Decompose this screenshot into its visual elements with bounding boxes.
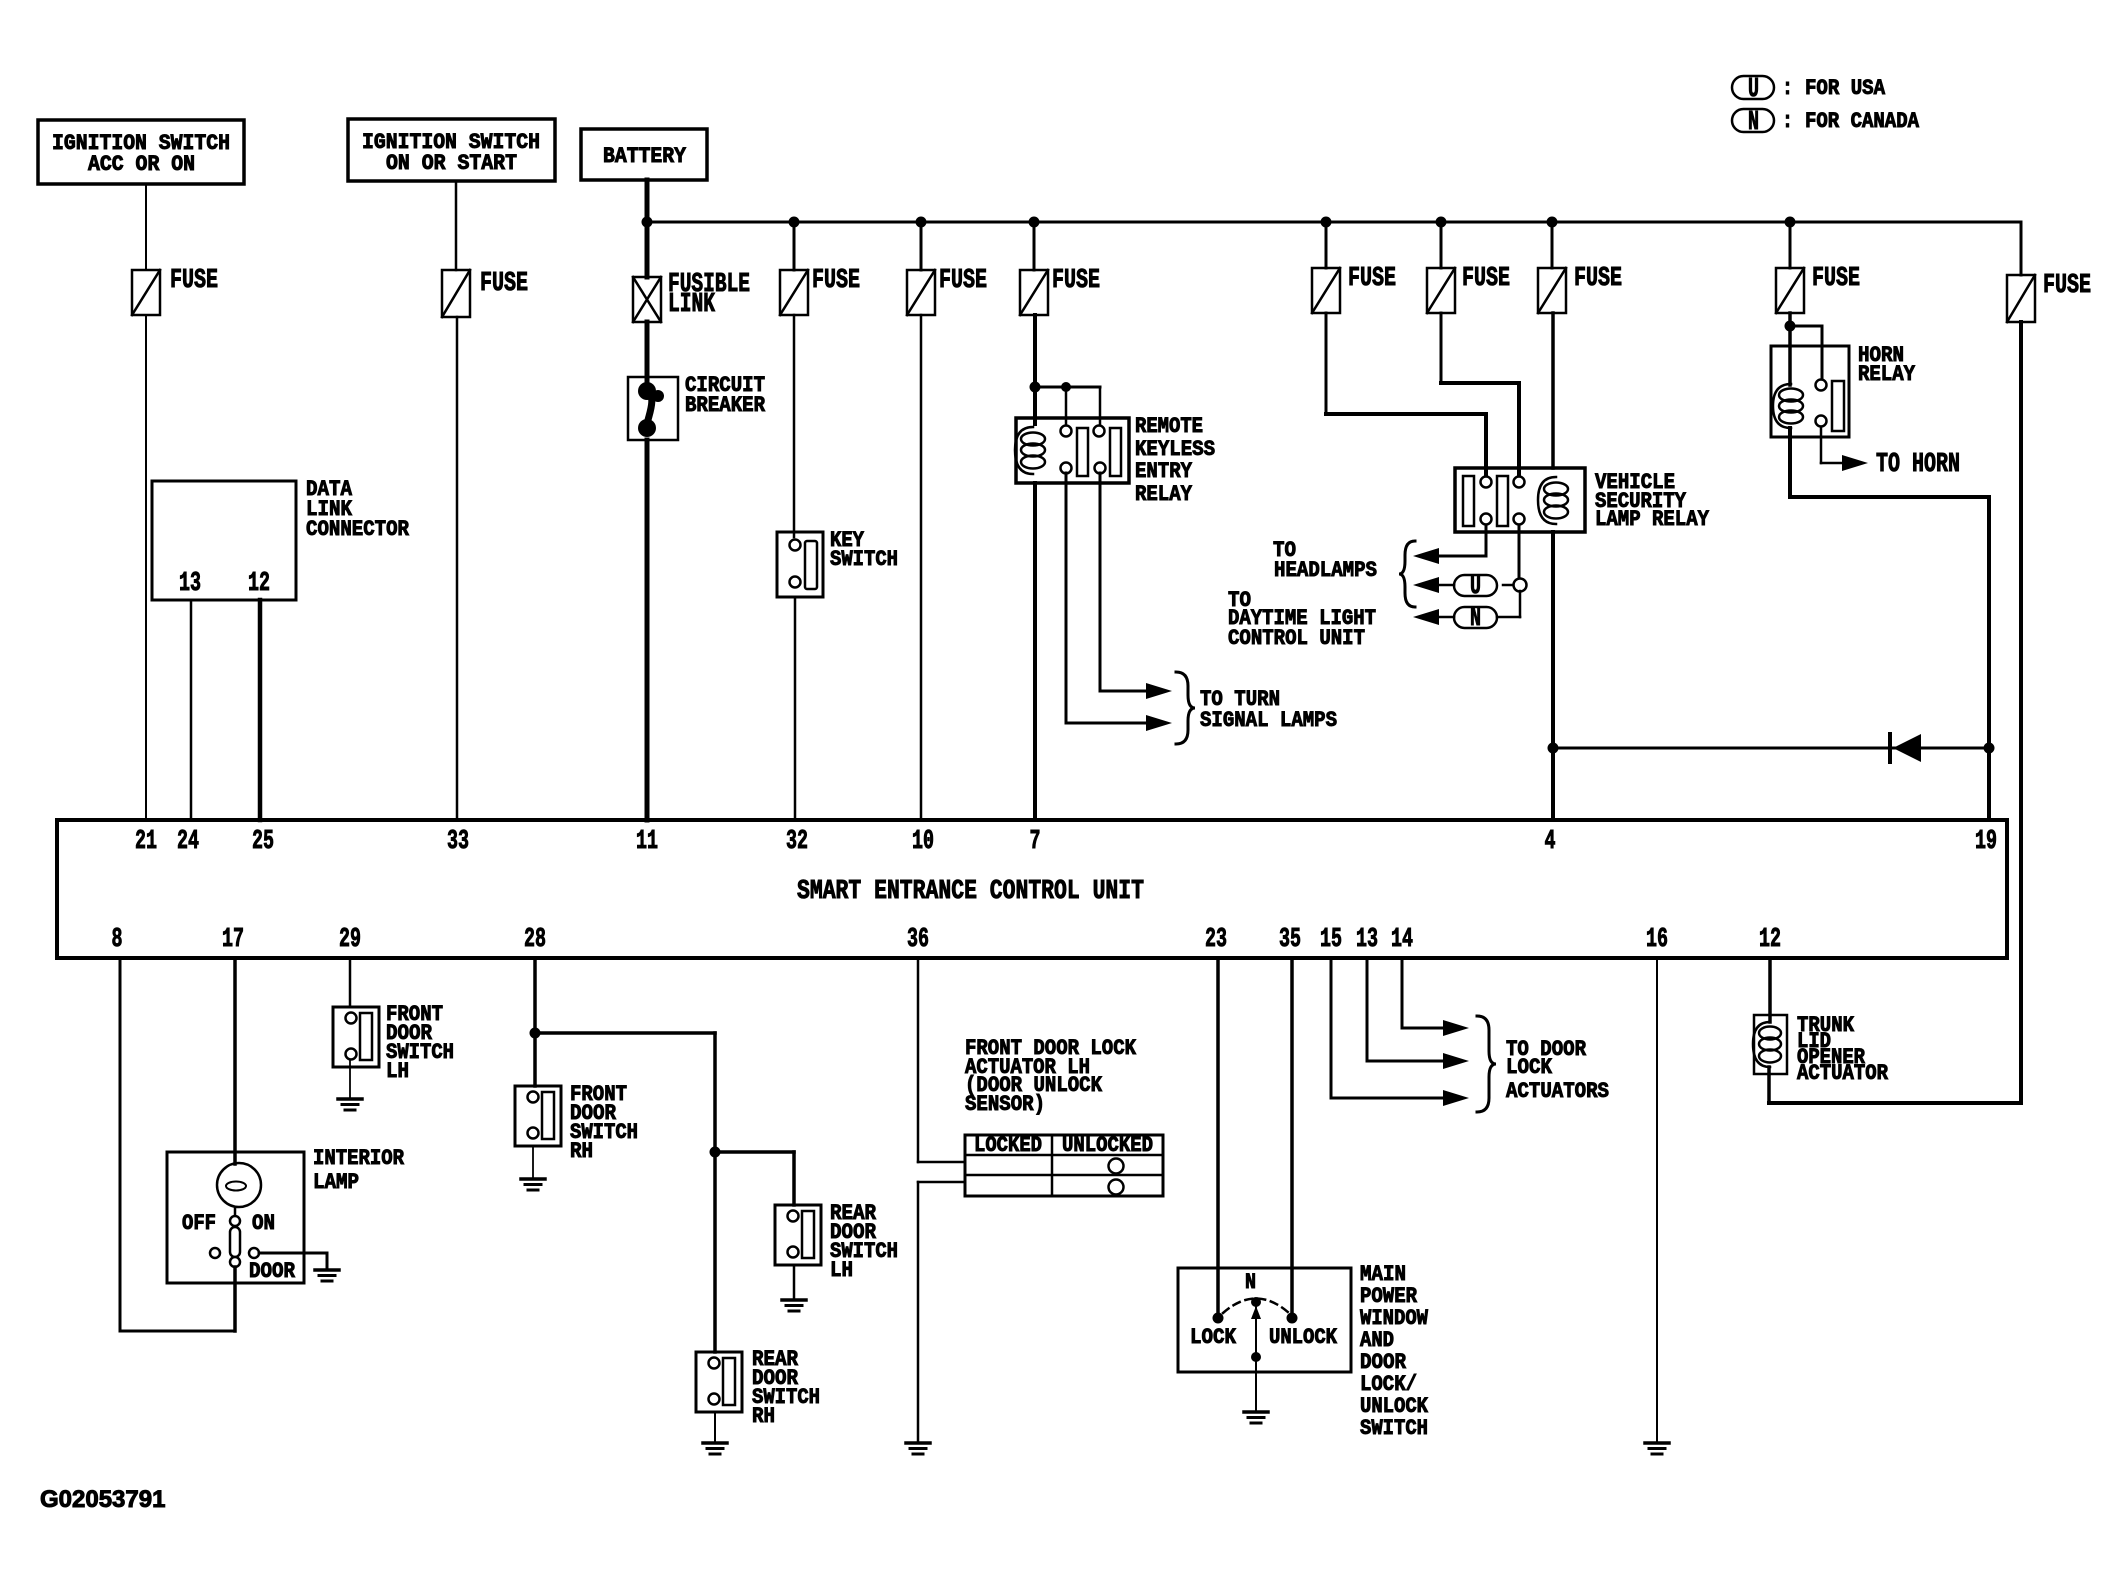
wire pin 28 to front door switch RH (533, 958, 537, 1086)
fuse F4 (907, 266, 987, 315)
wire bus to fuse F9 (1789, 222, 1792, 268)
svg-text:FUSE: FUSE (480, 269, 528, 299)
front door switch RH (515, 1086, 561, 1146)
legend FOR USA (1782, 76, 1886, 101)
brace turn signal group (1176, 672, 1195, 744)
svg-text:LOCK: LOCK (1190, 1325, 1237, 1350)
svg-text:FUSE: FUSE (812, 266, 860, 296)
svg-text:10: 10 (912, 827, 934, 857)
svg-text:UNLOCKED: UNLOCKED (1062, 1133, 1153, 1158)
ground pin 16 (1645, 1441, 1669, 1445)
wire pin 16 to ground (1656, 958, 1658, 1441)
svg-text:UNLOCK: UNLOCK (1269, 1325, 1338, 1350)
svg-text:ACC OR ON: ACC OR ON (88, 152, 195, 177)
svg-text:ACTUATOR: ACTUATOR (1797, 1061, 1889, 1086)
label REAR DOOR SWITCH LH (830, 1201, 898, 1283)
svg-text:RH: RH (570, 1139, 593, 1164)
wire rear door switch LH to ground (793, 1266, 796, 1298)
wire pin 29 to front door switch LH (349, 958, 352, 1007)
wire relay contact to turn signal (upper) (1099, 473, 1102, 691)
fuse F3 (780, 266, 860, 315)
svg-text:LH: LH (830, 1258, 853, 1283)
label TO TURN SIGNAL LAMPS (1200, 687, 1337, 733)
key switch (777, 528, 898, 597)
fuse F5 (1020, 266, 1100, 315)
wire lamp relay mid contact to connector circle (1518, 525, 1521, 579)
wire pin 35 to unlock contact (1290, 958, 1294, 1312)
wire rear door switch RH to ground (714, 1412, 716, 1441)
wire DLC pin 13 to pin 24 (190, 600, 193, 820)
fuse F2 (ON or START) (442, 269, 528, 317)
node diode row right (1984, 743, 1995, 754)
svg-text:CONTROL UNIT: CONTROL UNIT (1228, 626, 1365, 651)
fusible link (633, 270, 750, 322)
wire pin 17 to interior lamp (233, 958, 237, 1164)
wire trunk actuator return (1767, 1067, 1771, 1103)
battery box (581, 129, 707, 180)
svg-text:ON OR START: ON OR START (386, 151, 517, 176)
connector node circle (1514, 579, 1527, 592)
brace headlamp group (1399, 541, 1415, 607)
wire branch to rear door switches (535, 1031, 715, 1035)
wire lamp relay coil junction to diode (1553, 747, 1989, 750)
wire ignition ACC to fuse (145, 184, 147, 270)
front door switch LH (333, 1007, 379, 1067)
svg-text:LH: LH (386, 1059, 409, 1084)
wire pin 8 to lamp switch return (119, 958, 122, 1331)
wire pin 12 to trunk actuator (1768, 958, 1772, 1022)
svg-text:DOOR: DOOR (249, 1259, 296, 1284)
wire circuit breaker to pin 11 (645, 440, 650, 820)
svg-text:TO HORN: TO HORN (1876, 450, 1960, 480)
fuse F8 (1538, 264, 1622, 313)
svg-text:FOR CANADA: FOR CANADA (1805, 109, 1920, 134)
bus junction node x=1441 (1436, 217, 1447, 228)
diode D1 (1890, 734, 1921, 762)
brace door lock actuators (1477, 1016, 1496, 1112)
svg-text:ON: ON (252, 1211, 275, 1236)
wire branch to horn relay contact (1790, 325, 1822, 328)
svg-text:FUSE: FUSE (2043, 271, 2091, 301)
battery power bus wire (647, 221, 2021, 224)
svg-text:12: 12 (248, 569, 270, 599)
arrow to headlamps (USA) (1413, 577, 1439, 593)
svg-text:SIGNAL LAMPS: SIGNAL LAMPS (1200, 708, 1337, 733)
legend oval N (1732, 108, 1774, 138)
vehicle security lamp relay U2 (1455, 468, 1710, 532)
bus junction node x=1034 (1029, 217, 1040, 228)
wire horn relay coil to pin 19 (1788, 428, 1792, 497)
svg-text:INTERIOR: INTERIOR (313, 1146, 405, 1171)
label TO HEADLAMPS (1273, 538, 1377, 583)
smart entrance control unit box (57, 820, 2007, 958)
arrow to turn signal lamps (lower) (1146, 715, 1172, 731)
svg-text:N: N (1470, 604, 1481, 634)
node contact branch (1061, 382, 1071, 392)
svg-text:17: 17 (222, 925, 244, 955)
node rear door switch branch (710, 1147, 721, 1158)
wire pin 14 to actuators arrow (1401, 958, 1404, 1028)
horn relay U3 (1771, 343, 1916, 437)
fuse F1 (ACC) (132, 266, 218, 315)
svg-text:LAMP: LAMP (313, 1170, 359, 1195)
wire relay contact feed (1035, 386, 1100, 389)
bus junction node x=794 (789, 217, 800, 228)
ground rear door switch LH (782, 1298, 806, 1302)
wire bus to fuse F6 (1325, 222, 1328, 268)
arrow to door lock actuators (pin 14) (1443, 1020, 1469, 1036)
wire N oval to arrow (1440, 616, 1454, 619)
svg-text::: : (1782, 109, 1793, 134)
svg-text:7: 7 (1030, 827, 1041, 857)
svg-text:LAMP RELAY: LAMP RELAY (1595, 507, 1710, 532)
wire fuse F6 to lamp relay left contact (1325, 313, 1328, 414)
svg-text:FUSE: FUSE (1462, 264, 1510, 294)
svg-text:14: 14 (1391, 925, 1413, 955)
wire pin 13 to actuators arrow (1366, 958, 1369, 1061)
wire lamp switch to pin 8 return (233, 1267, 237, 1331)
wire fuse F3 to key switch (793, 315, 796, 537)
bus junction node x=1790 (1785, 217, 1796, 228)
svg-text:BREAKER: BREAKER (685, 393, 766, 418)
svg-text:35: 35 (1279, 925, 1301, 955)
svg-text:33: 33 (447, 827, 469, 857)
svg-text:SENSOR): SENSOR) (965, 1092, 1045, 1117)
svg-text:29: 29 (339, 925, 361, 955)
wire DLC pin 12 to pin 25 (258, 600, 263, 820)
legend FOR CANADA (1782, 109, 1920, 134)
svg-text:4: 4 (1545, 827, 1556, 857)
wire bus to fuse F4 (920, 222, 923, 270)
wire lamp DOOR contact to ground (259, 1252, 327, 1255)
svg-text:13: 13 (179, 569, 201, 599)
wire branch to rear door switch LH (715, 1150, 794, 1154)
legend oval U (1732, 75, 1774, 105)
interior lamp assembly (167, 1152, 304, 1284)
label TO DOOR LOCK ACTUATORS (1506, 1037, 1609, 1104)
remote keyless entry relay U1 (1015, 414, 1215, 507)
wire lamp relay coil to pin 4 (1551, 532, 1555, 820)
bus junction node x=921 (916, 217, 927, 228)
wire key switch to pin 32 (794, 597, 797, 820)
svg-text:BATTERY: BATTERY (603, 144, 687, 169)
svg-text:RELAY: RELAY (1858, 362, 1916, 387)
wire fuse F1 to pin 21 (145, 315, 147, 820)
node keyless relay feed (1030, 382, 1041, 393)
label TO DAYTIME LIGHT CONTROL UNIT (1228, 588, 1376, 651)
wire front door switch LH to ground (349, 1060, 351, 1097)
svg-text:FUSE: FUSE (1348, 264, 1396, 294)
wire lamp relay to headlamps arrow (1485, 525, 1488, 556)
wire bus to fuse F3 (793, 222, 796, 270)
wire fuse F4 to pin 10 (920, 315, 923, 820)
svg-text:U: U (1748, 75, 1759, 105)
svg-text:CONNECTOR: CONNECTOR (306, 517, 410, 542)
label REAR DOOR SWITCH RH (752, 1347, 820, 1429)
svg-text:FUSE: FUSE (170, 266, 218, 296)
svg-text:15: 15 (1320, 925, 1342, 955)
node diode row left (1548, 743, 1559, 754)
svg-text:36: 36 (907, 925, 929, 955)
svg-text:U: U (1470, 572, 1481, 602)
label FRONT DOOR LOCK ACTUATOR LH (DOOR UNLOCK SENSOR) (965, 1036, 1137, 1117)
wire bus to fuse F8 (1551, 222, 1554, 268)
ground door unlock sensor (906, 1441, 930, 1445)
svg-text:28: 28 (524, 925, 546, 955)
svg-text:N: N (1748, 108, 1759, 138)
svg-text:23: 23 (1205, 925, 1227, 955)
svg-text:8: 8 (112, 925, 123, 955)
svg-text:SWITCH: SWITCH (1360, 1416, 1428, 1441)
wire bus to fuse F5 (1033, 222, 1036, 270)
svg-text:SWITCH: SWITCH (830, 547, 898, 572)
fuse F10 (2007, 271, 2091, 322)
svg-text:FUSE: FUSE (1812, 264, 1860, 294)
svg-text:16: 16 (1646, 925, 1668, 955)
wire horn relay contact to horn arrow (1820, 427, 1823, 463)
svg-text:LINK: LINK (668, 290, 716, 320)
svg-text:12: 12 (1759, 925, 1781, 955)
ground main power window switch (1244, 1410, 1268, 1414)
main power window and door lock/unlock switch (1178, 1268, 1351, 1410)
svg-text:FUSE: FUSE (1052, 266, 1100, 296)
node door switch branch (530, 1028, 541, 1039)
wire U oval to arrow (1440, 584, 1454, 587)
ignition switch ON/START box (348, 119, 555, 181)
rear door switch LH (775, 1205, 821, 1265)
ground rear door switch RH (703, 1441, 727, 1445)
svg-text::: : (1782, 76, 1793, 101)
svg-text:LOCK: LOCK (1506, 1055, 1553, 1080)
wire bus to fuse F7 (1440, 222, 1443, 268)
data link connector box (152, 477, 410, 600)
trunk lid opener actuator (1753, 1013, 1889, 1086)
ignition switch ACC box (38, 120, 244, 184)
arrow to turn signal lamps (upper) (1146, 683, 1172, 699)
lock sensor state table (965, 1133, 1163, 1196)
svg-text:RELAY: RELAY (1135, 482, 1193, 507)
node horn relay feed (1785, 321, 1796, 332)
svg-text:ACTUATORS: ACTUATORS (1506, 1079, 1609, 1104)
svg-text:11: 11 (636, 827, 658, 857)
N oval connector (1454, 591, 1520, 634)
svg-text:32: 32 (786, 827, 808, 857)
svg-text:N: N (1245, 1270, 1256, 1295)
wire ignition ON/START to fuse (455, 181, 458, 270)
wire fuse F10 down to trunk actuator return (2019, 322, 2023, 1103)
wire keyless relay coil to pin 7 (1033, 483, 1037, 820)
fuse F9 (1776, 264, 1860, 313)
label FRONT DOOR SWITCH RH (570, 1082, 638, 1164)
svg-text:25: 25 (252, 827, 274, 857)
ground front door switch RH (521, 1177, 545, 1181)
U oval connector (1454, 572, 1513, 602)
fuse F7 (1427, 264, 1510, 313)
rear door switch RH (696, 1352, 742, 1412)
arrow to horn (1842, 455, 1868, 471)
svg-text:OFF: OFF (182, 1211, 216, 1236)
wire fuse F7 to lamp relay mid contact (1440, 313, 1443, 383)
svg-text:13: 13 (1356, 925, 1378, 955)
circuit breaker (628, 373, 766, 440)
svg-text:LOCKED: LOCKED (974, 1133, 1042, 1158)
wire fuse F9 to horn relay (1788, 313, 1792, 385)
wire bus corner to fuse F10 (2020, 222, 2023, 275)
label MAIN POWER WINDOW AND DOOR LOCK/UNLOCK SWITCH (1360, 1262, 1429, 1441)
wire sensor return to ground (918, 1181, 965, 1184)
arrow to door lock actuators (pin 13) (1443, 1053, 1469, 1069)
wire pin 23 to lock contact (1216, 958, 1220, 1312)
wire fuse F8 to lamp relay coil (1551, 313, 1555, 468)
svg-text:21: 21 (135, 827, 157, 857)
arrow to door lock actuators (pin 15) (1443, 1090, 1469, 1106)
bus junction node x=1552 (1547, 217, 1558, 228)
svg-text:24: 24 (177, 827, 199, 857)
wire pin 36 to door unlock sensor (917, 958, 920, 1162)
wire front door switch RH to ground (532, 1147, 534, 1177)
wire fusible link to circuit breaker (645, 322, 650, 383)
svg-text:ENTRY: ENTRY (1135, 459, 1193, 484)
ground interior lamp (315, 1268, 339, 1272)
svg-text:REMOTE: REMOTE (1135, 414, 1203, 439)
wire fuse F5 to keyless relay coil (1033, 315, 1037, 424)
wire fuse F2 to pin 33 (456, 317, 459, 820)
svg-text:G02053791: G02053791 (40, 1486, 165, 1513)
arrow to daytime light control unit (Canada) (1413, 609, 1439, 625)
svg-text:FOR USA: FOR USA (1805, 76, 1886, 101)
bus junction node x=647 (642, 217, 653, 228)
svg-text:RH: RH (752, 1404, 775, 1429)
svg-text:19: 19 (1975, 827, 1997, 857)
svg-text:HEADLAMPS: HEADLAMPS (1274, 558, 1377, 583)
ground front door switch LH (338, 1097, 362, 1101)
fuse F6 (1312, 264, 1396, 313)
wire battery to bus (645, 180, 650, 277)
bus junction node x=1326 (1321, 217, 1332, 228)
label INTERIOR LAMP (313, 1146, 405, 1195)
svg-text:FUSE: FUSE (1574, 264, 1622, 294)
arrow to headlamps (1413, 548, 1439, 564)
wire relay contact to turn signal (lower) (1065, 473, 1068, 723)
svg-text:FUSE: FUSE (939, 266, 987, 296)
label FRONT DOOR SWITCH LH (386, 1002, 454, 1084)
svg-text:SMART ENTRANCE CONTROL UNIT: SMART ENTRANCE CONTROL UNIT (797, 877, 1144, 907)
wire pin 15 to actuators arrow (1330, 958, 1333, 1098)
